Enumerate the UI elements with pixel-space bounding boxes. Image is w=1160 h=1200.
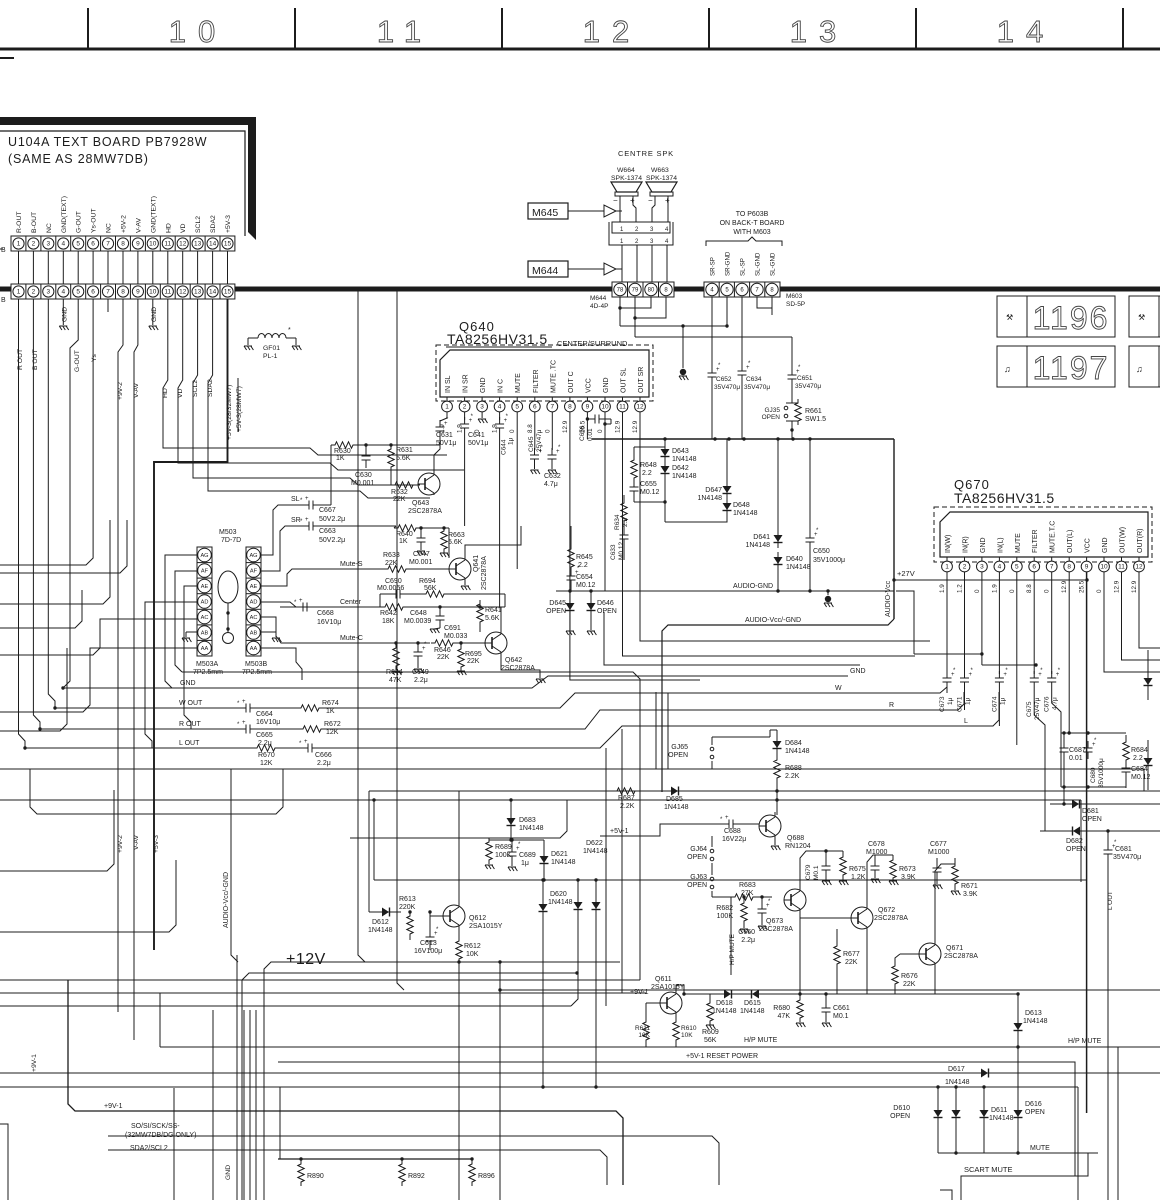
svg-text:OPEN: OPEN xyxy=(762,414,781,421)
wire pin9 interconnect xyxy=(137,251,139,284)
svg-text:D621: D621 xyxy=(551,851,568,858)
svg-text:5.6K: 5.6K xyxy=(485,615,500,622)
svg-text:9: 9 xyxy=(1085,564,1089,571)
svg-text:2SC2878A: 2SC2878A xyxy=(501,665,535,672)
connector row M644 board side pins 1-15 xyxy=(11,236,235,251)
wire pin11 interconnect xyxy=(167,251,169,284)
diode D640 1N4148 xyxy=(777,552,779,570)
svg-text:6: 6 xyxy=(533,404,537,411)
svg-text:0: 0 xyxy=(1044,589,1051,593)
svg-text:22K: 22K xyxy=(845,959,858,966)
svg-text:IN(R): IN(R) xyxy=(963,536,970,553)
svg-text:D622: D622 xyxy=(586,840,603,847)
svg-text:0: 0 xyxy=(597,429,604,433)
svg-text:C664: C664 xyxy=(256,711,273,718)
svg-text:12: 12 xyxy=(636,404,644,411)
connector M644 box xyxy=(528,261,568,277)
svg-text:AG: AG xyxy=(200,553,208,559)
wire L OUT to Q670 xyxy=(319,692,999,748)
svg-text:D648: D648 xyxy=(733,502,750,509)
svg-text:+: + xyxy=(304,739,308,745)
svg-text:12: 12 xyxy=(583,14,641,49)
diode D618 1N4148 xyxy=(719,993,737,995)
wire M503A AE left xyxy=(184,586,197,729)
wire mesh h838 xyxy=(350,800,567,838)
svg-text:GND: GND xyxy=(980,537,987,553)
svg-text:Q671: Q671 xyxy=(946,945,963,952)
svg-text:2.2: 2.2 xyxy=(1133,755,1143,762)
svg-text:SCL2: SCL2 xyxy=(192,380,199,397)
svg-text:R671: R671 xyxy=(961,883,978,890)
wire pin10 interconnect xyxy=(152,251,154,284)
svg-text:4: 4 xyxy=(998,564,1002,571)
svg-text:U104A TEXT BOARD PB7928W: U104A TEXT BOARD PB7928W xyxy=(8,135,207,149)
wire pin6 interconnect xyxy=(92,251,94,284)
svg-text:R890: R890 xyxy=(307,1173,324,1180)
svg-text:R892: R892 xyxy=(408,1173,425,1180)
wire SL to R630 xyxy=(330,445,332,505)
svg-text:−: − xyxy=(648,196,653,205)
connector M503B column xyxy=(246,547,261,656)
svg-text:50V1μ: 50V1μ xyxy=(436,440,456,447)
svg-text:GND: GND xyxy=(151,307,158,322)
wire mesh v256 xyxy=(255,1010,257,1200)
wire staircase s4 xyxy=(0,648,67,731)
svg-text:1N4148: 1N4148 xyxy=(1023,1018,1048,1025)
svg-text:+5V-2: +5V-2 xyxy=(121,215,128,233)
svg-text:M0.1: M0.1 xyxy=(813,865,820,880)
svg-text:Q642: Q642 xyxy=(505,657,522,664)
wire Mute-S row xyxy=(300,568,388,570)
resistor R634 2.2 rotated xyxy=(621,499,627,525)
svg-text:8: 8 xyxy=(568,404,572,411)
svg-text:Q641: Q641 xyxy=(473,555,480,572)
svg-text:C648: C648 xyxy=(410,610,427,617)
svg-text:1N4148: 1N4148 xyxy=(697,495,722,502)
svg-text:+12V: +12V xyxy=(286,951,326,968)
connector M644 4D-4P pins 78-81 xyxy=(612,282,674,297)
svg-text:SPK-1374: SPK-1374 xyxy=(611,175,642,182)
svg-text:22K: 22K xyxy=(903,981,916,988)
wire pin15 interconnect xyxy=(227,251,229,284)
wire M503A AG left to GND row xyxy=(165,555,197,688)
svg-text:0: 0 xyxy=(509,429,516,433)
svg-text:0.01: 0.01 xyxy=(1069,755,1083,762)
svg-text:M0.12: M0.12 xyxy=(618,542,625,560)
wire long row 1073 xyxy=(0,1072,1160,1074)
wire y880 row xyxy=(374,879,1087,881)
svg-text:13: 13 xyxy=(194,241,202,248)
wire M503B AC to Mute-C xyxy=(261,617,300,643)
svg-text:1N4148: 1N4148 xyxy=(733,510,758,517)
wire Center row xyxy=(296,606,385,608)
wire staircase s1 xyxy=(0,619,197,655)
svg-text:CENTRE SPK: CENTRE SPK xyxy=(618,149,674,158)
diode D621 1N4148 xyxy=(543,840,545,852)
svg-text:GND(TEXT): GND(TEXT) xyxy=(150,196,157,233)
svg-text:12: 12 xyxy=(179,289,187,296)
wire AUDIO-Vcc/-GND xyxy=(662,619,894,792)
svg-text:MUTE: MUTE xyxy=(1015,533,1022,553)
svg-text:R676: R676 xyxy=(901,973,918,980)
wire mesh h791 xyxy=(369,790,1160,792)
svg-text:C652: C652 xyxy=(716,376,732,383)
svg-text:R677: R677 xyxy=(843,951,860,958)
svg-text:+9V-1: +9V-1 xyxy=(104,1103,123,1110)
capacitor C652 35V470u xyxy=(711,366,713,373)
wire mesh bottom left corner 1 xyxy=(0,1124,8,1200)
svg-text:D616: D616 xyxy=(1025,1101,1042,1108)
wire pin14 interconnect xyxy=(212,251,214,284)
svg-text:11: 11 xyxy=(164,241,171,248)
wire SL input row xyxy=(285,504,302,506)
wire mesh corner 622 xyxy=(621,729,623,993)
svg-text:D612: D612 xyxy=(372,919,389,926)
svg-text:IN SL: IN SL xyxy=(445,375,452,393)
svg-text:C650: C650 xyxy=(813,548,830,555)
svg-text:D645: D645 xyxy=(549,600,566,607)
resistor R687 2.2K xyxy=(613,788,639,794)
capacitor C649 2.2u xyxy=(416,641,419,644)
svg-text:♫: ♫ xyxy=(1004,364,1011,374)
svg-text:SL: SL xyxy=(291,496,300,503)
capacitor C663 50V2.2u xyxy=(302,525,309,527)
capacitor C668 16V10u xyxy=(280,606,296,608)
wire pin8 interconnect xyxy=(122,251,124,284)
svg-text:D620: D620 xyxy=(550,891,567,898)
diode D646 OPEN xyxy=(590,591,592,598)
svg-text:C668: C668 xyxy=(317,610,334,617)
capacitor C666 2.2u xyxy=(301,747,308,749)
svg-text:VD: VD xyxy=(177,388,184,398)
text board outline U104A xyxy=(0,131,245,236)
svg-text:1N4148: 1N4148 xyxy=(551,859,576,866)
ruler tick xyxy=(1122,8,1124,49)
svg-text:22K: 22K xyxy=(437,654,450,661)
svg-text:7: 7 xyxy=(1050,564,1054,571)
capacitor C654 M0.12 xyxy=(570,569,572,576)
svg-text:R631: R631 xyxy=(396,447,413,454)
svg-text:TA8256HV31.5: TA8256HV31.5 xyxy=(954,490,1055,506)
svg-text:0: 0 xyxy=(544,429,551,433)
wire bus318 to M603 pin5 xyxy=(620,325,727,327)
svg-text:78: 78 xyxy=(617,288,624,294)
svg-text:6: 6 xyxy=(91,241,95,248)
svg-text:R672: R672 xyxy=(324,721,341,728)
wire Q670 pin4 to C674 xyxy=(998,572,1000,674)
svg-text:15: 15 xyxy=(224,241,232,248)
wire Q640 pin12 out SR xyxy=(640,412,930,641)
svg-text:R641: R641 xyxy=(485,607,502,614)
svg-text:B: B xyxy=(1,247,6,254)
svg-text:2.2μ: 2.2μ xyxy=(414,677,428,684)
svg-text:W663: W663 xyxy=(651,167,669,174)
svg-text:D683: D683 xyxy=(519,817,536,824)
wires connector to M644 pins xyxy=(621,245,623,284)
wire M644 pin78 down xyxy=(619,297,621,326)
wire mesh v244 xyxy=(243,1010,245,1200)
diode right edge upper xyxy=(1147,650,1149,700)
wire Q643 collector xyxy=(434,445,440,473)
svg-text:4: 4 xyxy=(61,241,65,248)
svg-text:SDA2/SCL2: SDA2/SCL2 xyxy=(130,1145,168,1152)
resistor R673 3.9K xyxy=(892,858,894,860)
svg-text:1197: 1197 xyxy=(1033,350,1110,386)
svg-text:L OUT: L OUT xyxy=(179,740,200,747)
svg-text:12.9: 12.9 xyxy=(1114,580,1121,593)
svg-text:AF: AF xyxy=(201,569,209,575)
svg-text:*: * xyxy=(288,327,291,334)
resistor R610 10K xyxy=(675,1020,677,1022)
svg-text:GND: GND xyxy=(1102,537,1109,553)
svg-text:3: 3 xyxy=(980,564,984,571)
resistor R672 12K xyxy=(299,726,325,732)
svg-text:M645: M645 xyxy=(532,207,558,219)
svg-text:56K: 56K xyxy=(704,1037,717,1044)
reference box right partial top xyxy=(1129,296,1159,337)
svg-text:C641: C641 xyxy=(468,432,485,439)
svg-text:M503B: M503B xyxy=(245,661,268,668)
svg-text:2.2: 2.2 xyxy=(578,562,588,569)
svg-text:R663: R663 xyxy=(448,532,465,539)
svg-text:25V47μ: 25V47μ xyxy=(1034,697,1041,720)
svg-text:D647: D647 xyxy=(705,487,722,494)
svg-text:7: 7 xyxy=(106,289,110,296)
wire G-OUT pin5 to GND row xyxy=(63,299,78,688)
wire mesh corner 668 xyxy=(667,693,669,769)
transistor Q672 2SC2878A xyxy=(851,907,873,929)
svg-text:R648: R648 xyxy=(640,462,657,469)
svg-text:R610: R610 xyxy=(681,1025,697,1032)
svg-text:2.2: 2.2 xyxy=(642,470,652,477)
svg-text:GND: GND xyxy=(180,680,196,687)
svg-text:C633: C633 xyxy=(610,544,617,560)
svg-text:35V470μ: 35V470μ xyxy=(795,383,821,390)
svg-text:AUDIO-Vcc: AUDIO-Vcc xyxy=(885,580,892,617)
wire M644 pin8 down xyxy=(635,297,666,318)
wire B-OUT from pin2 to R OUT row xyxy=(33,299,40,729)
ground pin4 xyxy=(62,299,64,325)
resistor R684 2.2 xyxy=(1125,735,1127,742)
svg-text:R: R xyxy=(889,702,894,709)
svg-text:1μ: 1μ xyxy=(947,697,954,705)
svg-text:SD-5P: SD-5P xyxy=(786,301,805,308)
wire Q670 pin1 to C673 xyxy=(946,572,948,674)
wire R OUT to Q670 xyxy=(325,692,964,729)
svg-text:1: 1 xyxy=(17,241,21,248)
svg-text:R630: R630 xyxy=(334,448,351,455)
speaker connector block rows xyxy=(612,222,670,233)
svg-text:WITH M603: WITH M603 xyxy=(733,229,770,236)
svg-text:M0.001: M0.001 xyxy=(409,559,432,566)
svg-text:+5V-3: +5V-3 xyxy=(153,835,160,853)
svg-text:12: 12 xyxy=(179,241,187,248)
svg-text:9: 9 xyxy=(586,404,590,411)
svg-text:IN SR: IN SR xyxy=(463,374,470,393)
svg-text:R OUT: R OUT xyxy=(179,721,202,728)
svg-text:R694: R694 xyxy=(419,578,436,585)
svg-text:W664: W664 xyxy=(617,167,635,174)
resistor R641 5.6K xyxy=(479,600,481,607)
svg-text:1μ: 1μ xyxy=(965,697,972,705)
wire M603 pin7 down xyxy=(757,297,772,308)
svg-text:14: 14 xyxy=(997,14,1055,49)
svg-text:C677: C677 xyxy=(930,841,947,848)
svg-text:0: 0 xyxy=(974,589,981,593)
svg-text:OUT(R): OUT(R) xyxy=(1137,529,1144,554)
wire mesh v1118 xyxy=(1117,1047,1119,1200)
svg-text:+5V-3: +5V-3 xyxy=(225,215,232,233)
transistor Q671 2SC2878A xyxy=(919,943,941,965)
svg-text:C663: C663 xyxy=(319,528,336,535)
wire mesh mid vertical x358 xyxy=(358,291,365,962)
svg-text:C691: C691 xyxy=(444,625,461,632)
svg-text:C679: C679 xyxy=(805,864,812,880)
svg-text:C613: C613 xyxy=(420,940,437,947)
svg-text:D617: D617 xyxy=(948,1066,965,1073)
wire mesh v160 xyxy=(159,993,161,1047)
svg-text:SDA2: SDA2 xyxy=(210,215,217,233)
svg-text:M0.033: M0.033 xyxy=(444,633,467,640)
wire SR input row xyxy=(285,525,302,527)
ruler tick xyxy=(915,8,917,49)
ground Q640 pin3 xyxy=(481,412,483,418)
svg-text:2.2μ: 2.2μ xyxy=(317,760,331,767)
wire +12V branch down xyxy=(499,962,501,1200)
connector M503A column xyxy=(197,547,212,656)
diode D647 1N4148 xyxy=(726,439,728,481)
wire Ys pin6 to left edge xyxy=(0,299,93,565)
wire pin7 stub xyxy=(107,299,109,312)
svg-text:1: 1 xyxy=(17,289,21,296)
svg-text:AC: AC xyxy=(250,615,258,621)
svg-text:B OUT: B OUT xyxy=(32,349,39,370)
svg-text:5.6K: 5.6K xyxy=(448,539,463,546)
svg-text:3: 3 xyxy=(46,241,50,248)
svg-text:1.2: 1.2 xyxy=(957,584,964,593)
svg-text:+: + xyxy=(299,598,303,604)
wire Q670 pin2 to C671 xyxy=(964,572,966,674)
wire SCL2 pin13 xyxy=(193,299,420,485)
svg-text:D615: D615 xyxy=(744,1000,761,1007)
svg-text:V-AV: V-AV xyxy=(133,383,140,398)
svg-text:5: 5 xyxy=(76,289,80,296)
svg-text:GND: GND xyxy=(480,377,487,393)
diode D681 OPEN xyxy=(1050,803,1160,805)
svg-text:2SC2878A: 2SC2878A xyxy=(944,953,978,960)
wire staircase s3 xyxy=(0,648,197,712)
capacitor C667 50V2.2u xyxy=(302,504,309,506)
svg-text:R-OUT: R-OUT xyxy=(16,211,23,233)
svg-text:OPEN: OPEN xyxy=(687,882,707,889)
svg-text:C678: C678 xyxy=(868,841,885,848)
svg-text:GND: GND xyxy=(603,377,610,393)
resistor R633 22K xyxy=(384,566,410,572)
svg-text:Mute-S: Mute-S xyxy=(340,561,363,568)
svg-text:OUT SL: OUT SL xyxy=(621,368,628,393)
svg-text:1N4148: 1N4148 xyxy=(583,848,608,855)
svg-text:C689: C689 xyxy=(519,852,536,859)
svg-text:AA: AA xyxy=(250,646,258,652)
diode D615 1N4148 xyxy=(746,993,764,995)
svg-text:OPEN: OPEN xyxy=(597,608,617,615)
wire mesh v237 xyxy=(236,955,238,1200)
svg-text:M1000: M1000 xyxy=(928,849,950,856)
svg-text:2: 2 xyxy=(463,404,467,411)
svg-text:1μ: 1μ xyxy=(508,437,515,445)
svg-text:L: L xyxy=(964,718,968,725)
svg-text:+5V-3(28MW7): +5V-3(28MW7) xyxy=(236,386,243,432)
svg-text:+: + xyxy=(242,720,246,726)
svg-text:12.9: 12.9 xyxy=(615,420,622,433)
svg-text:GJ64: GJ64 xyxy=(690,846,707,853)
wire Q640 pin10 gnd xyxy=(604,412,606,591)
svg-text:35V1000μ: 35V1000μ xyxy=(813,557,845,564)
svg-text:SL-GND: SL-GND xyxy=(755,252,762,276)
capacitor C650 35V1000u xyxy=(809,439,811,532)
capacitor C641 50V1u xyxy=(464,417,466,424)
svg-text:IN(W): IN(W) xyxy=(945,535,952,553)
svg-text:2: 2 xyxy=(963,564,967,571)
svg-text:OPEN: OPEN xyxy=(1066,846,1086,853)
svg-text:R675: R675 xyxy=(849,866,866,873)
svg-text:AUDIO-Vcc/-GND: AUDIO-Vcc/-GND xyxy=(223,872,230,928)
wire Q670 pin12 out R right xyxy=(1139,572,1160,648)
svg-text:C661: C661 xyxy=(833,1005,850,1012)
svg-text:12.9: 12.9 xyxy=(632,420,639,433)
ruler tick xyxy=(501,8,503,49)
capacitor C665 2.2u xyxy=(239,728,246,730)
svg-text:C674: C674 xyxy=(991,696,998,712)
svg-text:10: 10 xyxy=(169,14,227,49)
svg-text:HD: HD xyxy=(162,388,169,398)
wire M603 pin4 down xyxy=(711,297,713,369)
svg-text:Mute-C: Mute-C xyxy=(340,635,363,642)
svg-text:R609: R609 xyxy=(702,1029,719,1036)
svg-text:2: 2 xyxy=(32,241,36,248)
svg-text:Q643: Q643 xyxy=(412,500,429,507)
svg-text:1K: 1K xyxy=(326,708,335,715)
svg-text:80: 80 xyxy=(648,288,655,294)
svg-text:8: 8 xyxy=(121,241,125,248)
ruler tick xyxy=(294,8,296,49)
capacitor C680 35V1000u xyxy=(1087,741,1089,748)
svg-text:1N4148: 1N4148 xyxy=(672,473,697,480)
svg-text:SO/SI/SCK/SS-: SO/SI/SCK/SS- xyxy=(131,1123,180,1130)
transistor Q643 2SC2878A xyxy=(418,473,440,495)
svg-text:47K: 47K xyxy=(389,677,402,684)
svg-text:C687: C687 xyxy=(1069,747,1086,754)
svg-text:35V470μ: 35V470μ xyxy=(1113,854,1141,861)
svg-text:SR-SP: SR-SP xyxy=(710,257,717,276)
wire +9V-2 pin8 long xyxy=(118,299,123,1012)
wire R-OUT from pin1 to L OUT row xyxy=(19,299,26,748)
svg-text:15: 15 xyxy=(224,289,232,296)
wire mesh h1006 xyxy=(0,1005,571,1007)
svg-text:1N4148: 1N4148 xyxy=(672,456,697,463)
svg-text:8: 8 xyxy=(1067,564,1071,571)
brace under note xyxy=(706,237,782,246)
diode D612 1N4148 xyxy=(369,911,377,913)
wire AUDIO-Vcc vertical xyxy=(893,439,895,619)
svg-text:50V2.2μ: 50V2.2μ xyxy=(319,516,345,523)
wire M503B AA down xyxy=(261,648,302,680)
svg-text:C656: C656 xyxy=(579,425,586,441)
svg-text:10K: 10K xyxy=(638,1032,650,1039)
wire right block frame xyxy=(1061,732,1126,734)
svg-text:AE: AE xyxy=(250,584,258,590)
svg-text:D641: D641 xyxy=(753,534,770,541)
